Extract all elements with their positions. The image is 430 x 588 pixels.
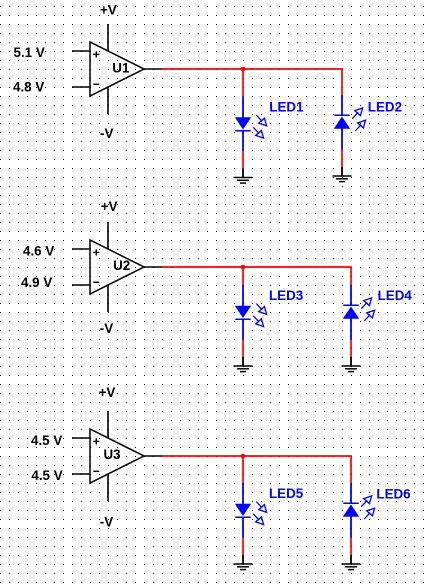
- ground (LED3): [234, 357, 253, 372]
- ground (LED4): [342, 357, 361, 372]
- svg-text:U1: U1: [112, 60, 130, 75]
- LED5: [235, 483, 267, 538]
- op-amp U2: [72, 222, 162, 312]
- svg-text:4.9 V: 4.9 V: [21, 275, 52, 290]
- svg-text:+V: +V: [99, 385, 116, 400]
- LED6: [343, 483, 375, 538]
- wire U2 output to LED4 branch: [162, 267, 351, 285]
- op-amp U3: [72, 411, 162, 501]
- svg-text:4.6 V: 4.6 V: [23, 244, 54, 259]
- LED4: [343, 285, 375, 340]
- wire LED3 to ground: [242, 340, 244, 358]
- wire U3 output to LED6 branch: [162, 456, 351, 483]
- svg-text:U2: U2: [113, 258, 130, 273]
- wire LED4 to ground: [350, 340, 352, 358]
- wire junction to LED1: [242, 69, 244, 97]
- svg-text:U3: U3: [104, 447, 121, 462]
- svg-text:5.1 V: 5.1 V: [14, 45, 45, 60]
- svg-text:-V: -V: [100, 514, 113, 529]
- svg-text:LED5: LED5: [269, 486, 304, 501]
- node junction U3 output: [241, 454, 246, 459]
- svg-text:-V: -V: [100, 126, 113, 141]
- wire junction to LED5: [242, 456, 244, 483]
- wire LED2 to ground: [341, 150, 343, 168]
- LED1: [235, 97, 267, 152]
- svg-text:4.5 V: 4.5 V: [31, 468, 62, 483]
- ground (LED6): [342, 555, 361, 570]
- svg-text:4.5 V: 4.5 V: [31, 433, 62, 448]
- LED3: [235, 285, 267, 340]
- svg-text:LED2: LED2: [368, 99, 402, 114]
- wire junction to LED3: [242, 267, 244, 285]
- svg-text:4.8 V: 4.8 V: [13, 79, 44, 94]
- wire LED6 to ground: [350, 538, 352, 556]
- wire LED5 to ground: [242, 538, 244, 556]
- LED2: [334, 95, 366, 150]
- svg-text:LED3: LED3: [269, 288, 303, 303]
- svg-text:LED4: LED4: [378, 288, 413, 303]
- svg-text:-V: -V: [100, 321, 113, 336]
- ground (LED5): [234, 555, 253, 570]
- svg-text:LED1: LED1: [269, 99, 304, 114]
- node junction U1 output: [241, 67, 246, 72]
- node junction U2 output: [241, 265, 246, 270]
- wire LED1 to ground: [242, 151, 244, 169]
- svg-text:LED6: LED6: [376, 487, 410, 502]
- op-amp U1: [72, 24, 162, 114]
- svg-text:+V: +V: [101, 199, 118, 214]
- ground (LED2): [333, 167, 352, 182]
- wire U1 output to LED2 branch: [162, 69, 342, 95]
- svg-text:+V: +V: [100, 3, 117, 18]
- ground (LED1): [234, 169, 253, 184]
